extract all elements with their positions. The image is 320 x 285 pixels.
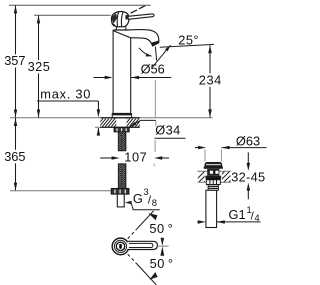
lever rod (128, 14, 154, 19)
svg-text:107: 107 (124, 150, 147, 165)
handle cap dark notch (112, 23, 115, 27)
faucet body (front view) (113, 31, 131, 114)
spout reach extension (upper gray) (154, 80, 156, 117)
svg-text:G: G (133, 191, 143, 206)
25° angle arc (139, 48, 151, 56)
threaded hose (lower segment) (118, 164, 126, 189)
hose-end extension line (365 bottom) (10, 190, 111, 192)
svg-text:357: 357 (4, 53, 25, 68)
25° angled stream line (152, 45, 170, 67)
handle top view: outer circle (112, 238, 129, 255)
spout aerator (dark outlet band) (151, 41, 160, 47)
drain deck bottom line (198, 181, 231, 183)
dim Ø56 body diameter (94, 77, 107, 79)
cap rod joint dark (125, 15, 128, 20)
inner hub (116, 242, 124, 250)
arrow 325 down (37, 110, 40, 118)
spout reach extension (lower gray) (154, 140, 156, 152)
G3/8 underline + arrow leader (131, 203, 160, 210)
hose end nut (G3/8) (111, 189, 129, 195)
50° lower arc arrowhead (149, 272, 157, 280)
50° upper dashed ray (128, 229, 137, 239)
spout (curved, outlet down-left) (113, 30, 159, 44)
svg-text:365: 365 (4, 149, 25, 164)
max.30 arrow to deck top (97, 101, 99, 111)
50° lower dashed ray (128, 254, 137, 264)
drain lower rings (208, 185, 218, 191)
arrow Ø63 left (222, 146, 230, 150)
dim G1 1/4 (tailpipe) (197, 221, 199, 223)
drain body with overflow windows (207, 169, 219, 176)
lever neck (115, 27, 117, 30)
hose end tube (117, 194, 124, 207)
center slot (119, 244, 122, 249)
threaded shank / supply hose (upper) (118, 132, 126, 151)
357 top extension line (9, 4, 151, 6)
325 extension line (34, 14, 111, 16)
arrow 32-45 down (247, 163, 251, 171)
arrow G1 right (198, 220, 206, 224)
deck cross-section hatching (96, 118, 154, 127)
Ø56 underline (131, 77, 171, 79)
drain nut (206, 178, 220, 184)
dim Ø63 (195, 147, 200, 149)
spout vertical reference (155, 47, 156, 61)
dim 365 vertical line (15, 118, 17, 150)
cap rim (204, 167, 223, 169)
svg-text:8: 8 (152, 197, 157, 208)
arrow O56 left (131, 76, 139, 79)
lever lift dashes (131, 10, 137, 13)
lever axis line (gray) (158, 245, 169, 247)
arrow 107 right (112, 156, 120, 160)
G1 1/4 underline (217, 221, 261, 223)
drain flange (205, 176, 221, 179)
svg-text:25°: 25° (178, 33, 199, 48)
arrow 365 down (14, 183, 17, 191)
svg-text:Ø34: Ø34 (155, 123, 180, 138)
Ø34 leader with arrow to shank (130, 120, 156, 126)
arrow 32-45 up (247, 183, 251, 191)
arrow 25° arc (146, 53, 153, 56)
swivel vertex double-arrow (bowtie) (161, 238, 165, 246)
arrow G3/8 (125, 201, 132, 205)
svg-text:234: 234 (199, 73, 222, 88)
svg-text:32-45: 32-45 (231, 170, 265, 185)
svg-text:325: 325 (28, 59, 51, 74)
arrow O56 right (105, 76, 113, 79)
handle cap (lever base knob) (111, 12, 129, 27)
arrow Ø63 right (198, 146, 206, 150)
Ø63 extension stubs (204, 149, 206, 162)
lever (top view) (127, 241, 157, 249)
svg-text:G1: G1 (229, 207, 246, 222)
Ø63 underline (222, 147, 267, 149)
arrow G1 left (217, 220, 225, 224)
dim 357 vertical line (15, 5, 17, 54)
dim 32-45 (247, 152, 249, 164)
arrow 365 up (14, 118, 17, 126)
drain deck hatching (194, 172, 245, 182)
dim 107 spout reach (100, 157, 113, 159)
svg-text:max. 30: max. 30 (40, 86, 91, 101)
cap left dark facet (112, 13, 117, 23)
arrow max30 up (97, 128, 101, 136)
mounting nut below deck (114, 127, 129, 131)
drain deck top line (198, 170, 231, 172)
arrow Ø34 (130, 122, 137, 127)
dim 325 vertical line (38, 15, 40, 60)
max.30 arrow to deck bottom (97, 128, 99, 135)
deck bottom line (95, 126, 140, 128)
drain valve cap (mushroom) (205, 162, 222, 166)
arrow 25° up-right (165, 45, 171, 51)
50° upper arc arrowhead (148, 213, 157, 220)
svg-text:Ø63: Ø63 (236, 133, 260, 148)
inner ring (114, 240, 126, 252)
arrow max30 down (97, 109, 101, 117)
svg-text:50 °: 50 ° (150, 256, 174, 271)
Ø34 underline (155, 137, 186, 139)
arrow 357 up (14, 5, 17, 13)
cap inner curves (117, 12, 118, 26)
svg-text:4: 4 (254, 212, 259, 223)
arrow 325 up (37, 15, 40, 23)
countertop reference line (deck top, long) (10, 117, 213, 119)
faucet base flange (112, 114, 131, 118)
arrow 357 down (14, 110, 17, 118)
svg-text:50 °: 50 ° (149, 221, 173, 236)
max.30 leader underline (37, 100, 98, 102)
spout datum line (slightly sloped) (160, 44, 214, 47)
arrow 234 down (208, 109, 212, 117)
svg-text:Ø56: Ø56 (141, 62, 165, 77)
arrow 234 up (208, 45, 212, 53)
arrow 107 left (154, 156, 162, 160)
drain tailpipe (206, 190, 217, 227)
dim 234 vertical line (209, 45, 211, 73)
